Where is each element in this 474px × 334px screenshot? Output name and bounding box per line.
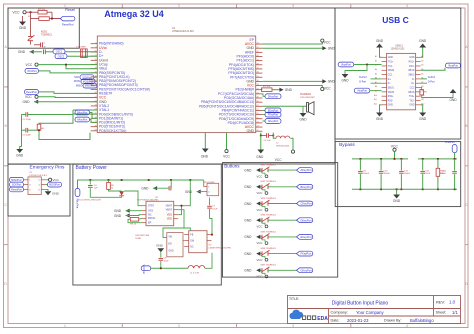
wire U2 VBAT	[178, 210, 190, 228]
inductor L2	[273, 133, 290, 148]
svg-text:1: 1	[64, 324, 66, 328]
svg-text:GND: GND	[299, 117, 307, 121]
wire button SW5 to flag	[268, 236, 297, 238]
capacitor C1 (series)	[44, 50, 54, 55]
svg-text:Drawn By:: Drawn By:	[384, 319, 402, 323]
svg-text:GND: GND	[246, 129, 254, 133]
svg-text:GND: GND	[16, 154, 24, 158]
svg-text:VCCPort: VCCPort	[142, 265, 145, 275]
svg-text:TX1-: TX1-	[388, 66, 393, 68]
svg-text:VBAT: VBAT	[166, 205, 173, 208]
svg-text:GND: GND	[156, 244, 164, 248]
power flag VCC (below chip)	[223, 150, 230, 159]
net flag ResetPort (P1)	[10, 187, 25, 192]
svg-text:13: 13	[95, 63, 97, 65]
svg-text:24: 24	[95, 109, 97, 111]
svg-text:GND: GND	[114, 214, 122, 218]
ground (button row 4)	[244, 218, 260, 222]
net flag OSC2	[55, 54, 67, 59]
USBC1 pin stubs	[382, 57, 421, 105]
ground (buttons feed)	[256, 150, 264, 160]
net flag AKeyPort	[297, 168, 313, 173]
svg-text:B1: B1	[421, 56, 423, 58]
svg-text:SCK: SCK	[74, 76, 79, 79]
bypass VCC rail	[352, 158, 408, 160]
svg-text:100nF: 100nF	[404, 173, 411, 175]
svg-text:GND: GND	[244, 202, 252, 206]
svg-text:NC: NC	[190, 246, 194, 248]
capacitor C8	[159, 252, 170, 268]
USBC1 right pin names	[408, 57, 415, 107]
ground (button row 7)	[244, 268, 260, 272]
chip U1 body	[97, 36, 255, 133]
svg-text:TX1+: TX1+	[388, 62, 394, 64]
pushbutton SW6	[257, 248, 277, 262]
power flag VCC (reset box)	[12, 11, 26, 15]
ground (button row 2)	[244, 185, 260, 189]
ground (BT1)	[185, 190, 203, 194]
svg-text:100nF: 100nF	[440, 173, 447, 175]
regulator U3 label	[209, 245, 232, 250]
net flag VbusPort (USB left 2)	[354, 88, 381, 93]
crystal Y1	[76, 47, 87, 58]
svg-text:D-Port: D-Port	[428, 81, 435, 84]
ground (U2 NC)	[114, 213, 142, 217]
buzzer BUZZER1	[262, 93, 315, 115]
net flag EKeyPort	[297, 235, 313, 240]
svg-text:D+Port: D+Port	[359, 76, 367, 79]
svg-text:23: 23	[95, 105, 97, 107]
svg-text:EP: EP	[148, 222, 152, 225]
battery connector BT1 refdes	[204, 182, 215, 184]
svg-text:VCC: VCC	[257, 208, 263, 212]
svg-text:42: 42	[257, 47, 259, 49]
svg-text:B4: B4	[421, 69, 423, 71]
svg-text:USB C: USB C	[382, 15, 408, 25]
svg-text:B3: B3	[421, 65, 423, 67]
net flag AKeyPort (left)	[75, 117, 97, 122]
svg-text:B12: B12	[421, 104, 424, 106]
svg-text:2023-01-23: 2023-01-23	[347, 318, 369, 323]
svg-text:22uF: 22uF	[425, 173, 431, 175]
svg-text:VCCPort: VCCPort	[27, 70, 37, 73]
svg-text:Buttons: Buttons	[224, 163, 240, 168]
svg-text:OSC2: OSC2	[58, 55, 65, 58]
resistor R7 (HWB)	[262, 86, 280, 92]
net flag FKeyPort	[297, 251, 313, 256]
svg-text:L1 4.7uH: L1 4.7uH	[190, 272, 199, 274]
connector P1 refdes	[30, 172, 48, 177]
svg-text:GND: GND	[285, 88, 293, 92]
power flag VCC (chip VCC pin)	[25, 95, 97, 99]
svg-text:EKeyPort: EKeyPort	[301, 235, 312, 239]
svg-text:B2: B2	[421, 60, 423, 62]
wire button SW4 to flag	[268, 219, 297, 221]
svg-text:ResetPort: ResetPort	[11, 189, 22, 192]
svg-text:OSC1: OSC1	[56, 51, 63, 54]
wire button SW7 to flag	[268, 269, 297, 271]
svg-text:CC2: CC2	[410, 87, 415, 89]
ground (below chip)	[201, 149, 209, 159]
svg-text:A6: A6	[375, 77, 377, 80]
svg-text:NC: NC	[148, 214, 152, 217]
resistor R4 (CC2)	[420, 88, 453, 98]
USBC1 pin numbers	[374, 55, 424, 106]
net flag VbusPort (bypass)	[445, 141, 457, 159]
pushbutton SW1	[257, 165, 277, 179]
ground + capacitor C5	[141, 180, 171, 191]
pushbutton SW2	[257, 181, 277, 195]
net flag GKeyPort	[262, 119, 281, 124]
pushbutton SW3	[257, 198, 277, 212]
svg-text:D-Port: D-Port	[359, 81, 366, 84]
svg-text:43: 43	[257, 43, 259, 45]
svg-text:VbusPort: VbusPort	[445, 141, 455, 144]
wire GND row10	[262, 80, 322, 82]
net flag VbusPort (USB right)	[446, 63, 461, 68]
ground (USB bottom-right)	[419, 105, 427, 121]
svg-text:MOSI: MOSI	[74, 80, 81, 83]
U1 left pin numbers	[95, 42, 97, 131]
wire GND row2	[262, 47, 322, 49]
svg-text:GND: GND	[341, 78, 349, 82]
wire button SW2 to flag	[268, 186, 297, 188]
svg-text:25: 25	[257, 117, 259, 119]
svg-text:VCC: VCC	[257, 275, 263, 279]
svg-text:SBU1: SBU1	[388, 87, 395, 89]
power flag VCC (right mid)	[321, 86, 332, 90]
bypass GND rail	[352, 188, 457, 190]
svg-text:26: 26	[95, 117, 97, 119]
net flag D-Port (right)	[421, 81, 435, 84]
svg-text:VCC: VCC	[257, 241, 263, 245]
wire L1 to U3	[205, 219, 213, 269]
net flag VCCPort (battery, rotated)	[141, 265, 151, 275]
ground (bypass)	[393, 189, 401, 203]
ground (USB left)	[341, 65, 367, 83]
svg-text:5VN0: 5VN0	[135, 238, 141, 240]
capacitor C11	[440, 159, 457, 189]
svg-text:14: 14	[95, 67, 97, 69]
svg-text:EN: EN	[168, 243, 172, 245]
svg-text:3: 3	[292, 324, 294, 328]
svg-text:TX2-: TX2-	[409, 100, 414, 102]
wire VCC to R1	[26, 11, 38, 13]
wire VBUS right	[421, 68, 445, 71]
svg-text:PS1240P02BT: PS1240P02BT	[300, 97, 315, 99]
ground (buzzer)	[299, 106, 307, 121]
ground (button row 6)	[244, 252, 260, 256]
svg-text:18: 18	[95, 84, 97, 86]
net flag BKeyPort (left)	[75, 110, 97, 118]
ground (button row 3)	[244, 201, 260, 205]
svg-text:SW6 TS5990CJ: SW6 TS5990CJ	[261, 248, 277, 250]
ground (right top)	[322, 46, 335, 50]
svg-text:VCC: VCC	[257, 174, 263, 178]
power flag VCC (UVcc row)	[26, 63, 39, 67]
section box Emergency Pins	[8, 164, 70, 216]
svg-text:VCC: VCC	[53, 178, 60, 182]
logo EasyEDA	[289, 310, 328, 323]
power flag VCC (right top)	[321, 39, 332, 44]
net flag SCKPort (P1)	[10, 182, 25, 187]
net flag D+Port (right)	[421, 76, 436, 79]
net flag MOSIPort (P1)	[45, 182, 61, 187]
svg-text:GND: GND	[23, 100, 31, 104]
wire battery top rail	[78, 179, 204, 188]
svg-text:GND: GND	[244, 219, 252, 223]
svg-text:D+Port: D+Port	[428, 76, 436, 79]
ground (U2 VSS)	[114, 209, 142, 213]
svg-text:GND: GND	[376, 39, 384, 43]
svg-text:B11: B11	[421, 99, 424, 101]
svg-text:RX1+: RX1+	[409, 62, 415, 64]
net flag DKeyPort	[297, 218, 313, 223]
USBC1 left pin names	[388, 57, 395, 107]
svg-text:GND: GND	[18, 50, 26, 54]
svg-text:VBUS: VBUS	[388, 70, 395, 72]
net flag DKeyPort	[262, 94, 281, 99]
U1 right pin stubs	[256, 44, 263, 131]
svg-text:A3: A3	[375, 64, 377, 67]
svg-text:27: 27	[95, 121, 97, 123]
svg-text:39: 39	[257, 59, 259, 61]
svg-text:GND: GND	[393, 199, 401, 203]
svg-text:GND: GND	[244, 235, 252, 239]
svg-text:R1 10k: R1 10k	[38, 9, 46, 11]
svg-text:VCC: VCC	[12, 11, 20, 15]
svg-text:GND: GND	[419, 39, 427, 43]
svg-text:REV:: REV:	[436, 300, 445, 305]
svg-text:VCC: VCC	[324, 86, 331, 90]
svg-text:Battery Power: Battery Power	[76, 165, 108, 171]
svg-text:Digital Button Input Piano: Digital Button Input Piano	[332, 301, 389, 307]
svg-text:D-: D-	[388, 83, 391, 85]
capacitor C4 (reset box)	[34, 42, 46, 48]
svg-text:10uF: 10uF	[164, 261, 170, 263]
svg-text:15: 15	[95, 71, 97, 73]
svg-text:28: 28	[257, 105, 259, 107]
LED D1 label	[78, 200, 102, 202]
capacitor C12	[399, 159, 411, 189]
svg-text:PD5(XCK1/CTS#): PD5(XCK1/CTS#)	[99, 129, 126, 133]
U1 left pin names	[99, 42, 150, 133]
pushbutton SW5	[257, 231, 277, 245]
svg-text:GND: GND	[168, 250, 173, 252]
svg-text:VCC: VCC	[25, 95, 32, 99]
svg-text:SW5 TS5990CJ: SW5 TS5990CJ	[261, 231, 277, 233]
resistor R3	[128, 218, 142, 226]
svg-text:FB: FB	[190, 234, 193, 236]
ground (USB right low)	[449, 89, 457, 102]
svg-text:AKeyPort: AKeyPort	[301, 168, 312, 172]
svg-text:A9: A9	[375, 90, 377, 93]
svg-text:34: 34	[257, 80, 259, 82]
ground (USB top-right)	[419, 39, 427, 57]
svg-text:VDD: VDD	[167, 218, 172, 221]
svg-text:MISO: MISO	[76, 84, 82, 87]
net flag MISOPort	[76, 83, 97, 88]
svg-text:SW7 TS5990CJ: SW7 TS5990CJ	[261, 265, 277, 267]
svg-text:GND: GND	[328, 80, 336, 84]
svg-text:RX2+: RX2+	[388, 96, 394, 98]
svg-text:VCC: VCC	[391, 144, 399, 148]
svg-text:Your Company: Your Company	[356, 310, 384, 315]
svg-text:ATMEGA32U4-MU: ATMEGA32U4-MU	[172, 29, 194, 33]
svg-text:B7: B7	[421, 82, 423, 84]
title block	[288, 296, 461, 324]
svg-text:25: 25	[95, 113, 97, 115]
svg-text:EDA: EDA	[317, 316, 328, 322]
wire U2 VDD to rail	[178, 180, 190, 215]
svg-text:19: 19	[95, 88, 97, 90]
svg-text:SW4 TS5990CJ: SW4 TS5990CJ	[261, 215, 277, 217]
svg-text:MOSIPort: MOSIPort	[49, 184, 60, 187]
net flag CKeyPort	[297, 201, 313, 206]
svg-text:VCC: VCC	[26, 63, 33, 67]
inductor L1	[188, 265, 205, 274]
svg-text:4: 4	[406, 324, 408, 328]
svg-text:21: 21	[95, 96, 97, 98]
power flag VCC (P1)	[45, 178, 59, 182]
svg-text:20: 20	[95, 92, 97, 94]
capacitor C6	[260, 133, 274, 143]
svg-text:VCC: VCC	[223, 155, 230, 159]
svg-text:TITLE:: TITLE:	[289, 297, 299, 301]
svg-text:GND: GND	[409, 57, 414, 59]
regulator U4 refdes	[135, 234, 149, 240]
svg-text:VCC: VCC	[324, 40, 331, 44]
svg-text:SW2 TS5990CJ: SW2 TS5990CJ	[261, 181, 277, 183]
capacitor C3	[22, 128, 40, 137]
wire chip VCC down	[226, 133, 228, 150]
capacitor C13	[420, 159, 430, 189]
net flag SCKPort	[74, 75, 97, 80]
wire VCC to UVcc/VBus pins	[38, 64, 97, 69]
svg-text:GND: GND	[409, 105, 414, 107]
LED D1	[109, 189, 125, 195]
svg-text:22: 22	[95, 100, 97, 102]
svg-text:38: 38	[257, 63, 259, 65]
svg-text:1.0: 1.0	[449, 300, 456, 305]
ground (button row 5)	[244, 235, 260, 239]
svg-text:C2 22pF: C2 22pF	[23, 119, 32, 121]
svg-text:SP0528-3001: SP0528-3001	[276, 145, 290, 147]
svg-text:Sheet:: Sheet:	[436, 311, 447, 315]
svg-text:VbusPort: VbusPort	[448, 65, 458, 68]
svg-text:GND: GND	[376, 117, 384, 121]
svg-text:GND: GND	[388, 105, 393, 107]
svg-text:CKeyPort: CKeyPort	[301, 202, 312, 206]
wire rail to BT1	[203, 180, 205, 186]
wire R1 to ResetPort	[52, 12, 60, 18]
svg-text:LM28T78PX-2.1NOPB: LM28T78PX-2.1NOPB	[209, 247, 232, 249]
svg-text:SW1 TS5990CJ: SW1 TS5990CJ	[261, 165, 277, 167]
section box USB C	[335, 8, 461, 139]
svg-text:40: 40	[257, 55, 259, 57]
svg-text:1uF: 1uF	[42, 47, 46, 49]
svg-text:DKeyPort: DKeyPort	[268, 95, 279, 98]
battery connector BT1 body	[207, 183, 219, 195]
resistor R18	[436, 159, 445, 189]
svg-text:SBU2: SBU2	[408, 74, 415, 76]
svg-text:Emergency Pins: Emergency Pins	[30, 165, 66, 171]
svg-text:B6: B6	[421, 78, 423, 80]
capacitor C10	[379, 159, 391, 189]
svg-text:VCC: VCC	[257, 191, 263, 195]
svg-text:GND: GND	[141, 187, 149, 191]
svg-text:TX2+: TX2+	[409, 96, 415, 98]
svg-text:100nF: 100nF	[363, 173, 370, 175]
svg-text:B9: B9	[421, 91, 423, 93]
wire chip GND down	[204, 133, 206, 149]
svg-text:2: 2	[178, 324, 180, 328]
svg-text:SW3 TS5990CJ: SW3 TS5990CJ	[261, 198, 277, 200]
svg-text:27: 27	[257, 109, 259, 111]
section box Bypass	[335, 142, 461, 207]
U1 left pin stubs	[91, 44, 98, 131]
net flag ResetPort (left)	[25, 90, 98, 95]
svg-text:VIN: VIN	[168, 236, 172, 238]
svg-text:GND: GND	[244, 168, 252, 172]
pushbutton SW7	[257, 265, 277, 279]
svg-text:FKeyPort: FKeyPort	[301, 252, 312, 256]
svg-text:8: 8	[96, 42, 97, 44]
svg-text:16: 16	[95, 76, 97, 78]
svg-text:Bypass: Bypass	[339, 142, 355, 148]
capacitor C9	[358, 159, 370, 189]
section box Battery Power	[73, 164, 221, 285]
net flag GKeyPort	[297, 268, 313, 273]
net flag EKeyPort	[262, 108, 281, 113]
svg-text:GND: GND	[256, 155, 264, 159]
ground (USB bottom-left)	[376, 105, 384, 121]
svg-text:GND: GND	[19, 26, 27, 30]
section box Atmega	[8, 8, 335, 164]
U1 right pin names	[199, 38, 255, 133]
svg-text:R7 10k: R7 10k	[263, 86, 271, 88]
svg-text:B10: B10	[421, 95, 424, 97]
wire button SW6 to flag	[268, 253, 297, 255]
svg-text:ResetPort: ResetPort	[62, 23, 74, 27]
svg-text:28: 28	[95, 125, 97, 127]
ground (reset box)	[19, 16, 27, 30]
svg-text:VBUS: VBUS	[408, 92, 415, 94]
svg-text:GND: GND	[201, 155, 209, 159]
bypass VBUS rail	[418, 158, 457, 160]
svg-text:A12: A12	[374, 103, 377, 106]
ground rail left	[22, 115, 91, 147]
svg-text:A10: A10	[374, 94, 377, 97]
svg-text:1/1: 1/1	[452, 310, 458, 315]
svg-text:41: 41	[257, 51, 259, 53]
svg-text:22: 22	[257, 130, 259, 132]
svg-text:VSS: VSS	[148, 210, 153, 213]
pushbutton SW4	[257, 215, 277, 229]
svg-text:GND: GND	[328, 47, 336, 51]
svg-text:GND: GND	[114, 209, 122, 213]
svg-text:A7: A7	[375, 81, 377, 84]
svg-text:A11: A11	[374, 98, 377, 101]
net flag BKeyPort	[297, 184, 313, 189]
svg-text:100nF: 100nF	[384, 173, 391, 175]
svg-text:VBUS: VBUS	[408, 70, 415, 72]
svg-text:VbusPort: VbusPort	[357, 90, 367, 93]
power flag VCC (buttons feed)	[275, 138, 295, 162]
capacitor C7	[207, 198, 218, 219]
svg-text:ResetPort: ResetPort	[26, 91, 37, 94]
ground (chip GND pin)	[23, 100, 98, 104]
